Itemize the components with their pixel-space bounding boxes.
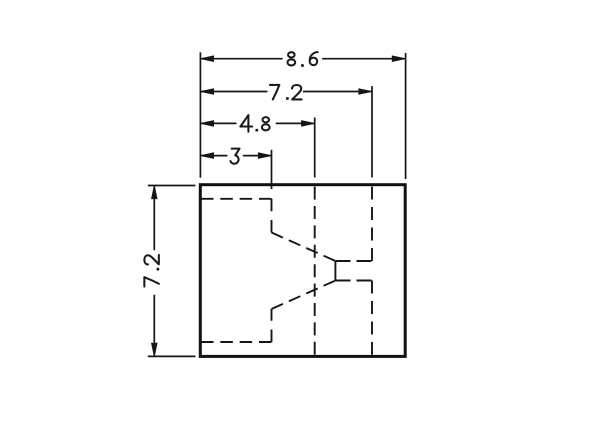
dimension line 3 <box>200 155 271 157</box>
hidden line: slot tip vertical segment <box>334 261 336 281</box>
dimension line 7.2 <box>200 91 372 93</box>
dimension 7.2 horizontal <box>200 85 372 178</box>
hidden line: right vertical above slot <box>371 187 373 261</box>
arrow left 4.8 <box>200 121 213 127</box>
hidden line: lower-left horizontal edge <box>201 341 272 343</box>
hidden line: middle vertical edge at 4.8 <box>314 187 316 355</box>
hidden line: upper-left horizontal edge <box>201 198 272 200</box>
arrow right 7.2 <box>359 89 372 95</box>
extension line right <box>405 53 407 179</box>
extension line right 3 <box>271 150 273 189</box>
hidden line: upper step vertical <box>271 199 273 233</box>
arrow up 7.2 <box>152 186 158 199</box>
hidden line: lower slot horizontal <box>336 280 373 282</box>
label 7.2 vertical <box>144 255 159 287</box>
dimension line 8.6 <box>200 58 405 60</box>
label 4.8 <box>240 115 269 132</box>
hidden line: upper slot horizontal <box>336 260 373 262</box>
label 3 <box>230 149 239 164</box>
hidden line: upper taper diagonal <box>272 233 336 262</box>
dimension 8.6 <box>200 52 405 179</box>
arrow right 8.6 <box>392 56 405 62</box>
front view outline rectangle <box>200 185 405 357</box>
dimension 4.8 <box>200 115 314 177</box>
dimension 3 <box>200 149 271 189</box>
extension line bottom <box>148 355 196 357</box>
dimension line 4.8 <box>200 122 314 124</box>
arrow right 3 <box>258 153 271 159</box>
label 7.2 <box>270 85 302 100</box>
extension line right 7.2 <box>371 86 373 177</box>
hidden line: right vertical below slot <box>371 281 373 355</box>
hidden line: lower step vertical <box>271 309 273 342</box>
dimension 7.2 vertical <box>144 186 195 357</box>
arrow left 3 <box>200 153 213 159</box>
extension line right 4.8 <box>314 118 316 178</box>
arrow left 8.6 <box>200 56 213 62</box>
hidden line: lower taper diagonal <box>272 281 336 310</box>
extension line top <box>148 185 196 187</box>
arrow right 4.8 <box>302 121 315 127</box>
arrow left 7.2 <box>200 89 213 95</box>
arrow down 7.2 <box>152 343 158 356</box>
dimension line vertical 7.2 <box>153 186 155 357</box>
label 8.6 <box>287 52 317 65</box>
extension line left (shared) <box>199 52 201 177</box>
